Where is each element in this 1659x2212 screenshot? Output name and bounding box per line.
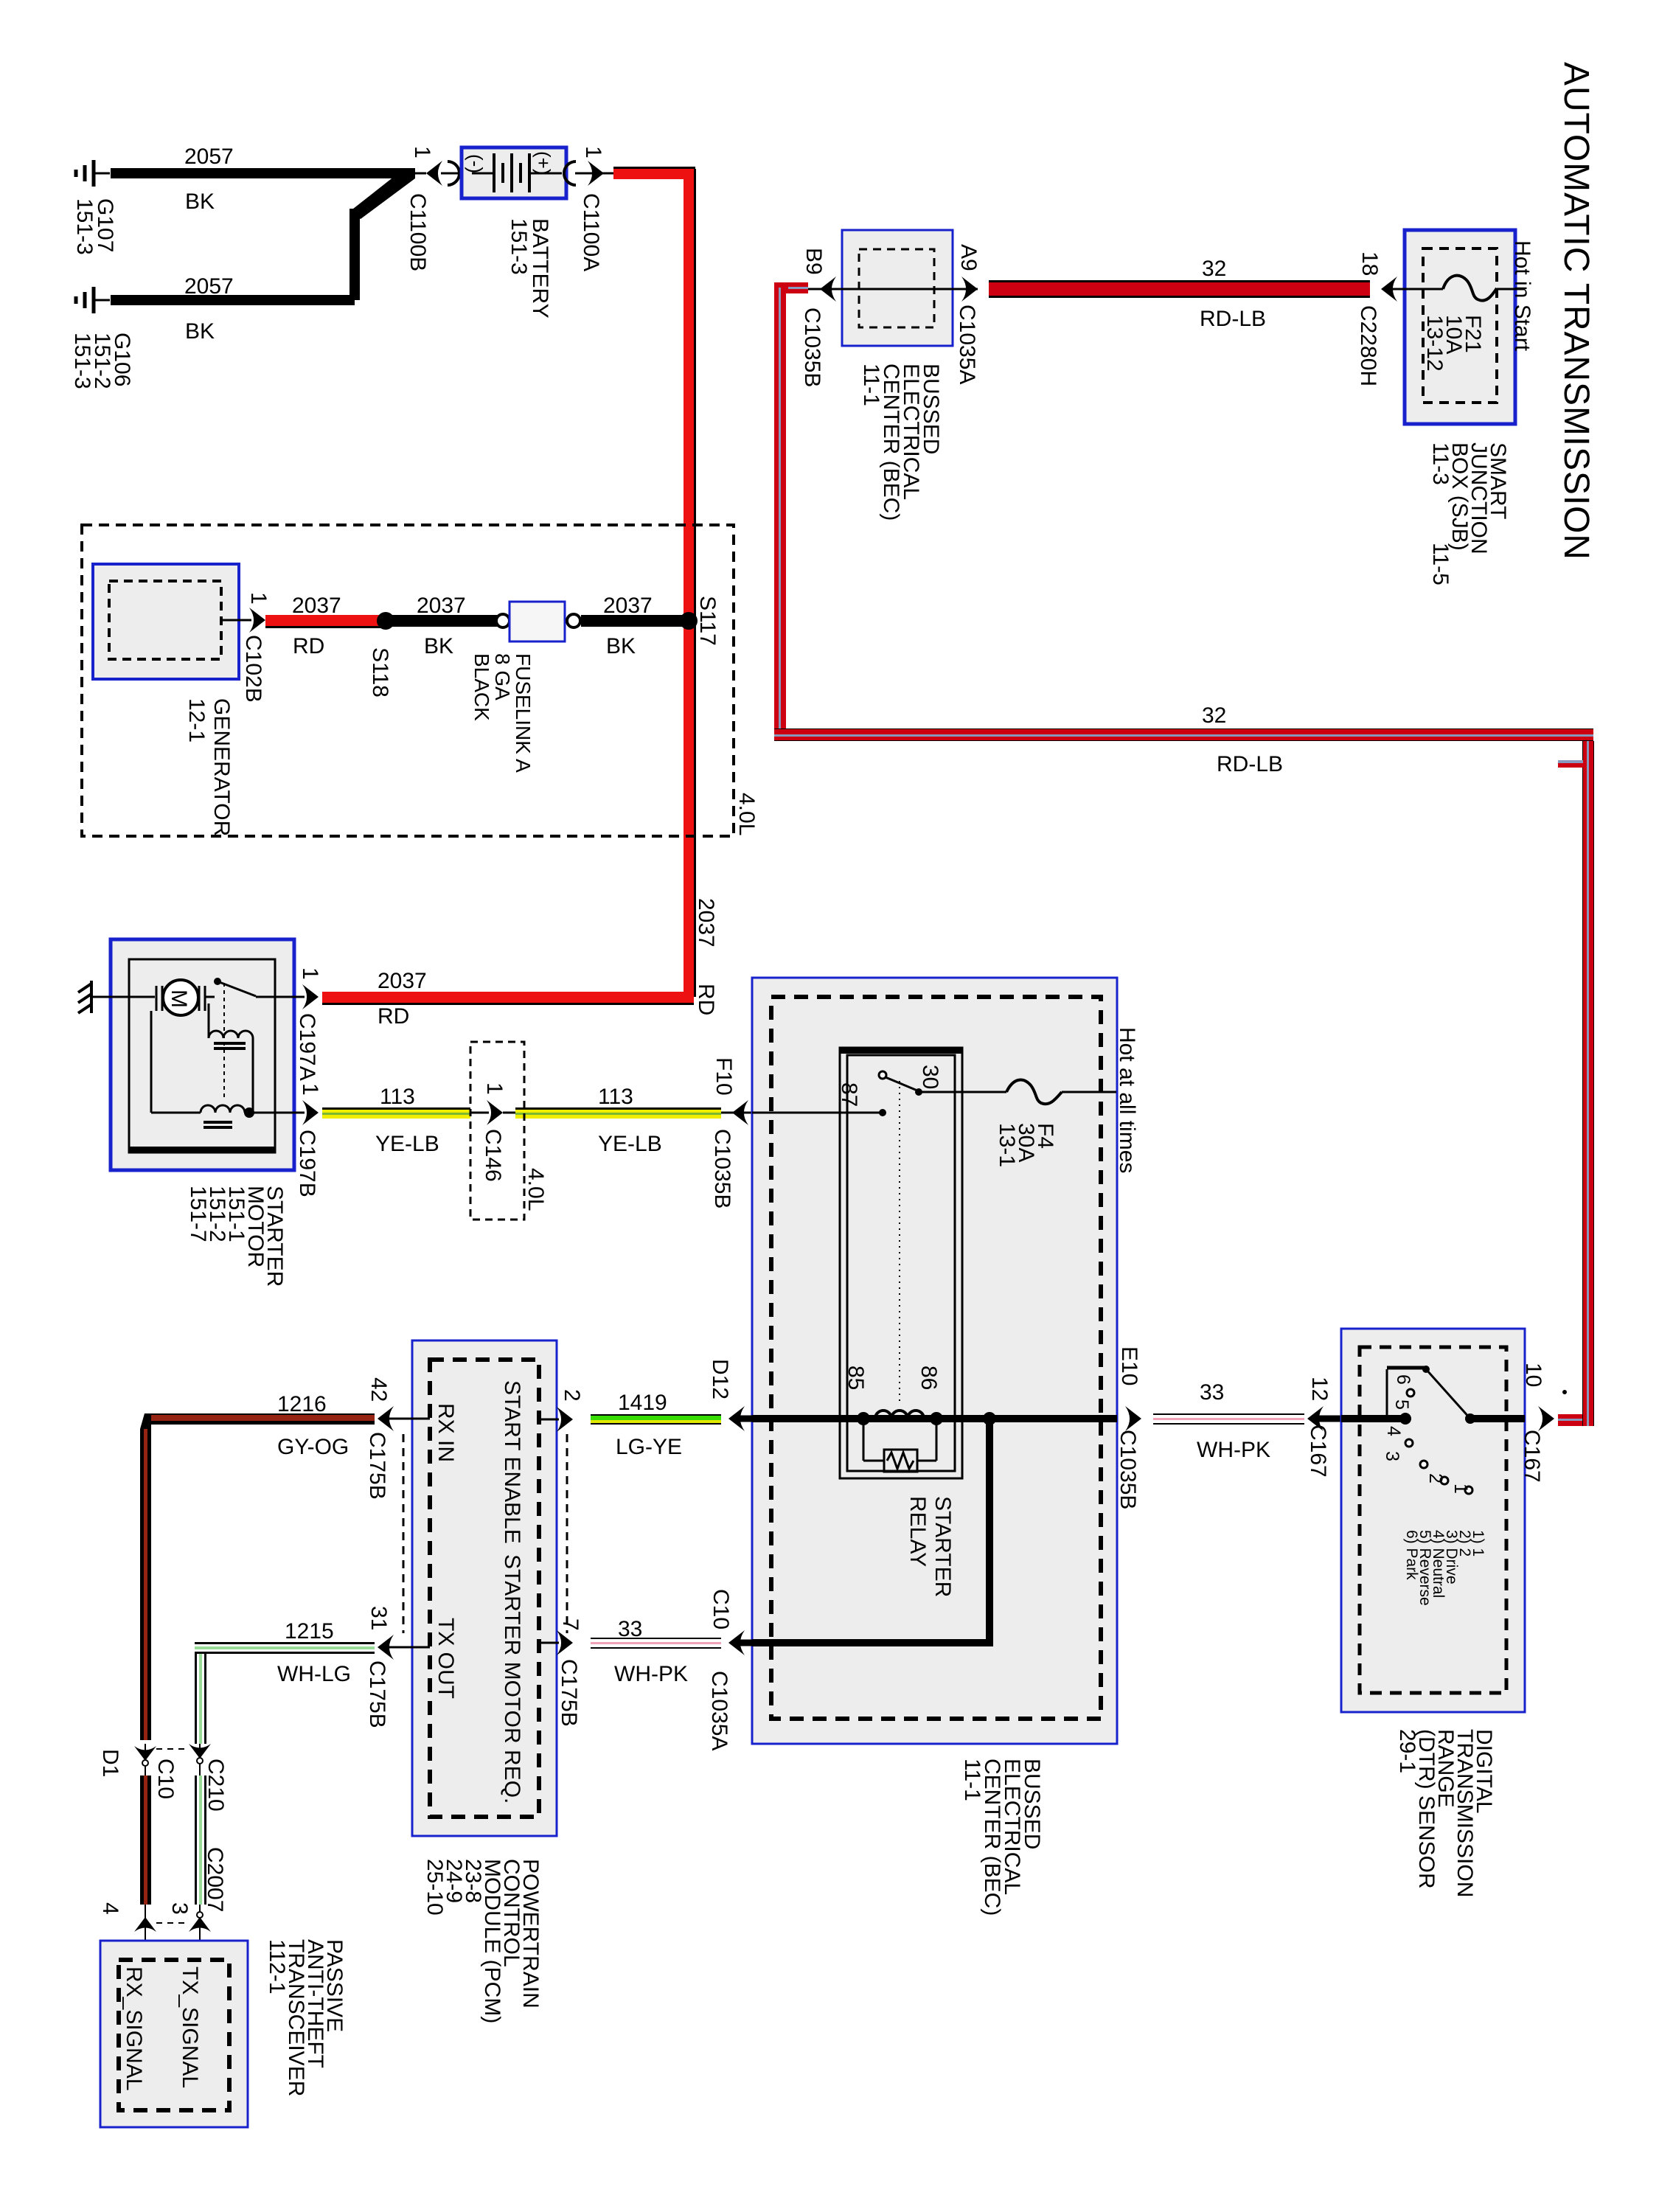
svg-text:C2280H: C2280H (1356, 305, 1380, 386)
svg-text:F10: F10 (712, 1057, 736, 1096)
svg-text:30: 30 (918, 1065, 942, 1089)
svg-text:BK: BK (606, 634, 636, 658)
svg-text:E10: E10 (1117, 1346, 1141, 1385)
svg-text:TX OUT: TX OUT (434, 1618, 458, 1699)
svg-text:4: 4 (98, 1902, 122, 1915)
svg-text:C175B: C175B (557, 1659, 581, 1727)
svg-text:7: 7 (558, 1618, 582, 1631)
svg-text:RX IN: RX IN (434, 1403, 458, 1462)
svg-text:RX_SIGNAL: RX_SIGNAL (122, 1966, 146, 2090)
svg-text:2057: 2057 (184, 145, 234, 169)
svg-text:C1035B: C1035B (1116, 1430, 1140, 1509)
svg-text:2037: 2037 (378, 969, 427, 993)
svg-text:1216: 1216 (277, 1392, 327, 1416)
svg-text:RD: RD (378, 1004, 409, 1029)
svg-text:C1035A: C1035A (707, 1671, 731, 1750)
svg-text:113: 113 (380, 1085, 415, 1109)
svg-text:151-3: 151-3 (70, 333, 94, 389)
svg-text:C1035A: C1035A (955, 305, 979, 384)
svg-text:6) Park: 6) Park (1403, 1530, 1420, 1580)
svg-text:S117: S117 (695, 596, 720, 646)
svg-text:RELAY: RELAY (905, 1496, 930, 1567)
svg-text:C1100B: C1100B (406, 193, 430, 271)
svg-text:S118: S118 (368, 647, 392, 698)
svg-text:AUTOMATIC TRANSMISSION: AUTOMATIC TRANSMISSION (1557, 62, 1596, 560)
svg-text:1: 1 (298, 967, 322, 980)
svg-text:1: 1 (298, 1083, 322, 1096)
svg-text:32: 32 (1202, 257, 1226, 281)
svg-text:TX_SIGNAL: TX_SIGNAL (178, 1966, 202, 2088)
svg-text:3: 3 (1382, 1451, 1402, 1461)
svg-text:C102B: C102B (241, 635, 265, 703)
svg-text:RD-LB: RD-LB (1217, 752, 1283, 776)
svg-text:151-3: 151-3 (507, 218, 531, 275)
svg-text:(-): (-) (465, 154, 487, 173)
svg-text:(+): (+) (532, 151, 554, 175)
svg-text:33: 33 (1200, 1380, 1224, 1405)
svg-text:C175B: C175B (365, 1432, 389, 1500)
svg-text:RD: RD (694, 984, 718, 1015)
svg-text:BK: BK (185, 189, 215, 214)
svg-text:8 GA: 8 GA (491, 653, 514, 700)
svg-text:85: 85 (844, 1366, 868, 1390)
svg-text:4.0L: 4.0L (734, 793, 759, 835)
svg-text:2: 2 (560, 1389, 584, 1402)
svg-text:D12: D12 (708, 1359, 732, 1399)
svg-text:WH-PK: WH-PK (1197, 1438, 1270, 1462)
svg-text:12: 12 (1307, 1377, 1332, 1401)
svg-text:86: 86 (917, 1366, 941, 1390)
svg-text:2037: 2037 (603, 594, 653, 618)
svg-text:C210: C210 (204, 1759, 228, 1812)
svg-text:C167: C167 (1306, 1425, 1330, 1478)
svg-text:C146: C146 (481, 1129, 505, 1182)
svg-text:113: 113 (598, 1085, 633, 1109)
svg-text:1: 1 (581, 146, 605, 159)
svg-text:112-1: 112-1 (265, 1939, 289, 1994)
svg-text:1: 1 (246, 592, 271, 605)
svg-text:32: 32 (1202, 703, 1226, 728)
svg-text:33: 33 (618, 1617, 642, 1641)
svg-text:C10: C10 (153, 1759, 178, 1799)
svg-text:RD: RD (293, 634, 324, 658)
svg-text:6: 6 (1393, 1374, 1413, 1385)
svg-text:BK: BK (185, 319, 215, 344)
svg-text:11-1: 11-1 (859, 364, 883, 406)
svg-text:5: 5 (1391, 1399, 1412, 1410)
svg-text:12-1: 12-1 (184, 698, 209, 742)
svg-text:87: 87 (837, 1082, 861, 1107)
svg-text:2057: 2057 (184, 274, 234, 299)
svg-text:1: 1 (1450, 1484, 1471, 1494)
svg-text:D1: D1 (98, 1749, 122, 1777)
svg-text:11-3: 11-3 (1428, 442, 1453, 485)
svg-text:25-10: 25-10 (422, 1859, 447, 1916)
svg-text:START ENABLE: START ENABLE (500, 1380, 524, 1544)
svg-text:2037: 2037 (417, 594, 466, 618)
svg-text:YE-LB: YE-LB (375, 1132, 439, 1156)
svg-text:C197B: C197B (295, 1130, 319, 1197)
svg-text:C1100A: C1100A (579, 193, 603, 271)
svg-text:WH-LG: WH-LG (277, 1662, 351, 1686)
svg-text:1: 1 (482, 1082, 507, 1095)
svg-text:C2007: C2007 (203, 1847, 227, 1912)
svg-text:FUSELINK A: FUSELINK A (512, 653, 535, 773)
svg-text:Hot at all times: Hot at all times (1115, 1027, 1139, 1173)
svg-text:M: M (167, 990, 191, 1008)
svg-text:STARTER: STARTER (931, 1496, 955, 1597)
svg-text:Hot in Start: Hot in Start (1510, 240, 1534, 352)
svg-text:10: 10 (1521, 1363, 1545, 1387)
svg-text:11-5: 11-5 (1428, 543, 1453, 585)
svg-text:B9: B9 (801, 248, 826, 275)
svg-text:LG-YE: LG-YE (616, 1435, 682, 1459)
svg-text:C10: C10 (709, 1589, 733, 1630)
svg-text:13-1: 13-1 (995, 1123, 1019, 1167)
svg-text:WH-PK: WH-PK (614, 1662, 688, 1686)
svg-text:C1035B: C1035B (710, 1129, 734, 1208)
svg-text:C197A: C197A (295, 1013, 319, 1081)
svg-text:RD-LB: RD-LB (1200, 307, 1266, 331)
svg-text:A9: A9 (956, 244, 981, 271)
svg-text:151-3: 151-3 (72, 198, 97, 255)
svg-text:GY-OG: GY-OG (277, 1435, 349, 1459)
svg-text:1: 1 (410, 146, 434, 159)
svg-text:3: 3 (167, 1902, 192, 1915)
svg-text:29-1: 29-1 (1395, 1729, 1419, 1773)
svg-text:4.0L: 4.0L (524, 1168, 548, 1211)
svg-text:1419: 1419 (618, 1391, 667, 1415)
svg-text:C1035B: C1035B (800, 307, 824, 387)
svg-text:2037: 2037 (694, 898, 718, 947)
svg-text:C175B: C175B (365, 1660, 389, 1728)
svg-text:13-12: 13-12 (1422, 315, 1447, 372)
svg-text:STARTER MOTOR REQ.: STARTER MOTOR REQ. (500, 1554, 524, 1804)
svg-text:BLACK: BLACK (470, 653, 493, 721)
svg-text:YE-LB: YE-LB (598, 1132, 662, 1156)
svg-text:C167: C167 (1520, 1430, 1544, 1483)
svg-text:2: 2 (1425, 1473, 1446, 1484)
svg-text:42: 42 (366, 1377, 391, 1402)
svg-text:18: 18 (1357, 251, 1382, 276)
svg-text:151-7: 151-7 (186, 1186, 210, 1242)
svg-text:1215: 1215 (285, 1619, 334, 1644)
svg-text:11-1: 11-1 (960, 1759, 984, 1801)
svg-text:4: 4 (1383, 1426, 1404, 1436)
svg-text:31: 31 (366, 1606, 391, 1630)
svg-text:2037: 2037 (292, 594, 341, 618)
svg-text:BK: BK (424, 634, 453, 658)
svg-text:GENERATOR: GENERATOR (209, 698, 234, 836)
